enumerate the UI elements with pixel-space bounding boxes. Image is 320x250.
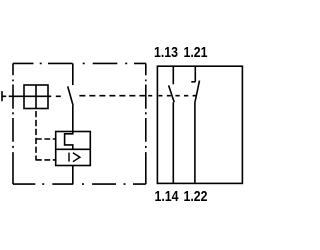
aux contact 1.21-1.22 top terminal with seat bar (NC) bbox=[191, 66, 195, 82]
mechanical linkage dashes (aux box edge to first aux blade) bbox=[159, 95, 172, 97]
operating mechanism (crossed square) bbox=[24, 85, 48, 109]
mechanism-to-magnetic dashed link bbox=[36, 159, 56, 161]
incoming terminal tick bbox=[1, 91, 3, 101]
aux contact 1.13-1.14 blade (NO) bbox=[169, 85, 175, 102]
phantom enclosure bottom border (dash-dot) bbox=[13, 183, 146, 185]
mechanical linkage dash (border to aux box) bbox=[148, 95, 152, 97]
mechanical linkage dash (square to main blade) bbox=[56, 95, 61, 97]
aux contact 1.13-1.14 top terminal bbox=[172, 66, 174, 84]
mechanism vertical dashed link bbox=[35, 111, 37, 161]
auxiliary contact box bbox=[157, 66, 242, 183]
release box bbox=[56, 132, 91, 166]
main pole conductor to release box bbox=[72, 106, 74, 132]
svg-text:1.21: 1.21 bbox=[184, 44, 208, 60]
aux contact 1.13-1.14 bottom terminal bbox=[172, 102, 174, 183]
svg-text:1.13: 1.13 bbox=[154, 44, 178, 60]
phantom enclosure left border (dash-dot) bbox=[12, 63, 14, 184]
incoming line to mechanism bbox=[2, 95, 24, 97]
mechanism-to-thermal dashed link bbox=[36, 138, 56, 140]
mechanical linkage dashes (between aux blades) bbox=[175, 95, 196, 97]
svg-text:1.22: 1.22 bbox=[184, 188, 208, 204]
phantom enclosure right border (dash-dot) bbox=[145, 63, 147, 184]
main pole top terminal bbox=[72, 63, 74, 85]
main contact blade bbox=[68, 86, 74, 106]
mechanical linkage dashed line (main blade to phantom border) bbox=[79, 95, 145, 97]
mechanical linkage stub at mechanism right edge bbox=[48, 95, 51, 97]
magnetic overcurrent release symbol I> bbox=[69, 153, 80, 162]
aux contact 1.21-1.22 bottom terminal bbox=[194, 103, 196, 183]
aux contact 1.21-1.22 blade bbox=[195, 81, 200, 103]
thermal overload release symbol bbox=[65, 132, 73, 150]
phantom enclosure top border (dash-dot) bbox=[13, 62, 146, 64]
svg-text:1.14: 1.14 bbox=[155, 188, 179, 204]
main pole bottom conductor bbox=[72, 166, 74, 185]
